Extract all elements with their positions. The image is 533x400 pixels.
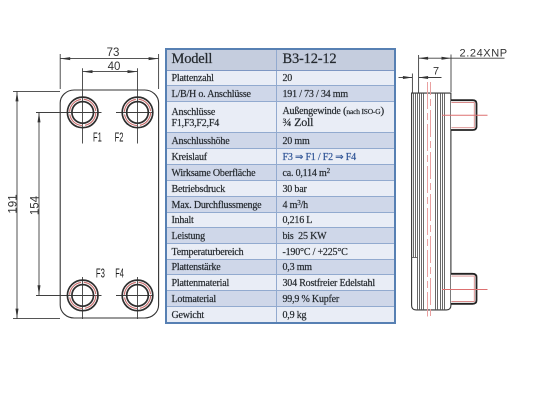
table row Gewicht [166, 306, 395, 322]
table row Plattenstaerke [166, 259, 395, 275]
port F3 crosshair [36, 277, 102, 319]
bottom fitting centreline [442, 289, 488, 291]
dimension 40 [83, 71, 138, 73]
top fitting [451, 100, 477, 130]
table row Temperaturbereich [166, 244, 395, 260]
dimension 73 [60, 54, 158, 89]
side view stack outline [412, 93, 451, 310]
svg-text:154: 154 [30, 195, 42, 215]
table row Anschlusshoehe [166, 133, 395, 149]
svg-text:F3: F3 [96, 266, 105, 280]
port F4 crosshair [116, 277, 153, 319]
port F1 crosshair [36, 68, 102, 143]
port F2 crosshair [116, 68, 153, 143]
svg-text:2.24XNP: 2.24XNP [460, 47, 508, 59]
table header row Modell [166, 49, 395, 323]
side view plate lines [414, 93, 445, 309]
svg-text:F2: F2 [115, 131, 124, 145]
port F2 [122, 97, 153, 128]
side view bottom notch [412, 257, 418, 259]
port F1 [67, 97, 98, 128]
port F4 [122, 280, 153, 311]
svg-text:F4: F4 [115, 266, 124, 280]
table row Plattenmaterial [166, 275, 395, 291]
table row Betriebsdruck [166, 181, 395, 197]
specification table [165, 48, 396, 324]
front view plate outline [60, 90, 158, 318]
table row Wirksame Oberflaeche [166, 164, 395, 181]
dimension 7 [399, 55, 442, 93]
top fitting thread (red) [451, 103, 474, 128]
table row Inhalt [166, 212, 395, 228]
dimension 154 [38, 112, 40, 295]
table row Plattenzahl [166, 70, 395, 86]
table row Max Durchflussmenge [166, 197, 395, 213]
svg-text:7: 7 [433, 66, 439, 78]
port F3 [67, 280, 98, 311]
top fitting centreline [442, 114, 488, 116]
svg-text:191: 191 [8, 194, 20, 213]
table row Lotmaterial [166, 291, 395, 307]
table row Anschluesse [166, 101, 395, 132]
svg-text:40: 40 [108, 61, 121, 73]
table row Leistung [166, 228, 395, 244]
red centre verticals [428, 82, 431, 320]
svg-text:F1: F1 [93, 131, 102, 145]
bottom fitting [451, 274, 477, 304]
dimension 191 [13, 91, 60, 318]
svg-text:73: 73 [107, 47, 120, 59]
table row L/B/H [166, 86, 395, 102]
table row Kreislauf [166, 148, 395, 164]
bottom fitting thread (red) [451, 276, 474, 301]
dimension 2.24XNP [419, 55, 505, 93]
